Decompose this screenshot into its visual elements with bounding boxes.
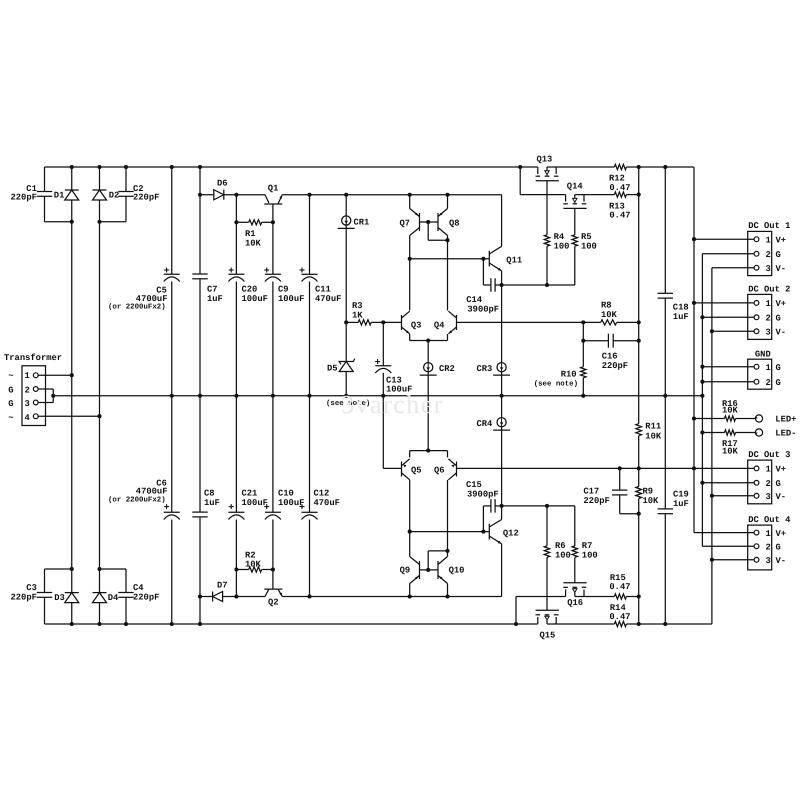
svg-text:Q16: Q16 (567, 598, 583, 608)
svg-text:(see note): (see note) (534, 380, 578, 389)
svg-text:R6: R6 (555, 541, 566, 551)
svg-text:Q5: Q5 (411, 465, 422, 475)
svg-text:3: 3 (766, 556, 771, 566)
svg-text:G: G (776, 479, 781, 489)
svg-text:V+: V+ (776, 529, 787, 539)
svg-text:10K: 10K (722, 406, 739, 416)
svg-text:C8: C8 (204, 489, 215, 499)
svg-text:D1: D1 (54, 190, 65, 200)
svg-text:R8: R8 (601, 301, 612, 311)
svg-text:Q14: Q14 (567, 182, 584, 192)
svg-text:D6: D6 (217, 179, 228, 189)
svg-text:Q13: Q13 (537, 155, 553, 165)
svg-text:C20: C20 (242, 285, 258, 295)
svg-text:Q6: Q6 (434, 465, 445, 475)
svg-text:4700uF: 4700uF (136, 487, 168, 497)
svg-text:DC Out 1: DC Out 1 (748, 221, 790, 231)
svg-text:Q9: Q9 (400, 566, 411, 576)
svg-text:2: 2 (766, 378, 771, 388)
svg-text:C4: C4 (133, 583, 144, 593)
svg-text:G: G (776, 542, 781, 552)
svg-text:G: G (8, 385, 13, 395)
svg-text:Q12: Q12 (503, 529, 519, 539)
svg-text:R11: R11 (645, 422, 661, 432)
svg-text:C11: C11 (315, 285, 331, 295)
svg-text:3: 3 (25, 399, 30, 409)
svg-text:3varcher: 3varcher (341, 390, 444, 419)
svg-text:CR4: CR4 (477, 419, 494, 429)
svg-text:D2: D2 (109, 190, 120, 200)
svg-text:DC Out 4: DC Out 4 (748, 515, 791, 525)
svg-text:10K: 10K (722, 446, 739, 456)
svg-text:Q4: Q4 (434, 321, 445, 331)
svg-text:Q1: Q1 (268, 184, 279, 194)
svg-text:(or 2200uFx2): (or 2200uFx2) (108, 496, 166, 505)
svg-text:10K: 10K (645, 431, 662, 441)
svg-text:1: 1 (25, 371, 30, 381)
svg-text:100: 100 (555, 551, 571, 561)
svg-text:~: ~ (8, 371, 13, 381)
svg-text:V-: V- (776, 264, 787, 274)
svg-text:Q3: Q3 (411, 321, 422, 331)
svg-text:1uF: 1uF (673, 499, 689, 509)
svg-text:100uF: 100uF (278, 498, 304, 508)
svg-text:1: 1 (766, 363, 771, 373)
svg-text:C21: C21 (242, 489, 258, 499)
svg-text:C7: C7 (207, 285, 218, 295)
svg-text:C14: C14 (466, 295, 483, 305)
svg-text:CR2: CR2 (439, 364, 455, 374)
svg-text:1: 1 (766, 529, 771, 539)
svg-text:2: 2 (766, 542, 771, 552)
svg-text:C19: C19 (673, 490, 689, 500)
svg-text:V+: V+ (776, 235, 787, 245)
svg-text:V-: V- (776, 556, 787, 566)
svg-text:470uF: 470uF (315, 294, 341, 304)
svg-text:0.47: 0.47 (609, 582, 630, 592)
svg-text:10K: 10K (601, 310, 618, 320)
svg-text:CR1: CR1 (354, 218, 370, 228)
svg-text:220pF: 220pF (11, 593, 37, 603)
svg-text:Q11: Q11 (506, 256, 522, 266)
svg-text:0.47: 0.47 (609, 183, 630, 193)
svg-text:DC Out 2: DC Out 2 (748, 285, 790, 295)
svg-text:0.47: 0.47 (609, 211, 630, 221)
svg-text:1uF: 1uF (673, 312, 689, 322)
svg-text:G: G (776, 314, 781, 324)
svg-text:C10: C10 (278, 489, 294, 499)
svg-text:Q2: Q2 (268, 598, 279, 608)
svg-text:220pF: 220pF (583, 496, 609, 506)
svg-text:2: 2 (766, 314, 771, 324)
svg-text:R9: R9 (643, 487, 654, 497)
svg-text:V+: V+ (776, 465, 787, 475)
svg-text:D7: D7 (217, 581, 228, 591)
svg-text:3900pF: 3900pF (467, 305, 499, 315)
svg-text:C9: C9 (278, 285, 289, 295)
svg-text:1K: 1K (352, 311, 363, 321)
svg-text:R7: R7 (582, 541, 593, 551)
svg-text:Q15: Q15 (540, 631, 556, 641)
svg-text:3: 3 (766, 328, 771, 338)
svg-text:220pF: 220pF (11, 193, 37, 203)
svg-text:Q7: Q7 (400, 219, 411, 229)
svg-text:D3: D3 (54, 593, 65, 603)
svg-text:1: 1 (766, 235, 771, 245)
svg-text:4: 4 (25, 413, 31, 423)
svg-text:0.47: 0.47 (609, 612, 630, 622)
svg-text:Transformer: Transformer (4, 353, 62, 363)
svg-text:3: 3 (766, 492, 771, 502)
svg-text:10K: 10K (245, 239, 262, 249)
svg-text:220pF: 220pF (602, 361, 628, 371)
svg-text:R10: R10 (561, 369, 577, 379)
svg-text:R1: R1 (245, 229, 256, 239)
svg-text:~: ~ (8, 413, 13, 423)
svg-text:G: G (8, 399, 13, 409)
svg-text:C16: C16 (602, 352, 618, 362)
svg-text:C15: C15 (466, 480, 482, 490)
svg-text:220pF: 220pF (133, 193, 159, 203)
svg-text:D5: D5 (327, 364, 338, 374)
svg-text:100uF: 100uF (242, 498, 268, 508)
svg-text:4700uF: 4700uF (136, 294, 168, 304)
svg-text:C18: C18 (673, 303, 689, 313)
svg-text:V+: V+ (776, 299, 787, 309)
svg-text:220pF: 220pF (133, 593, 159, 603)
svg-text:100: 100 (582, 551, 598, 561)
svg-text:G: G (776, 250, 781, 260)
svg-text:C12: C12 (314, 489, 330, 499)
svg-text:R4: R4 (554, 232, 565, 242)
svg-text:R5: R5 (581, 232, 592, 242)
svg-text:100: 100 (581, 242, 597, 252)
svg-text:D4: D4 (108, 593, 119, 603)
svg-text:1uF: 1uF (207, 294, 223, 304)
svg-text:2: 2 (766, 479, 771, 489)
svg-text:1: 1 (766, 465, 771, 475)
svg-text:1uF: 1uF (204, 498, 220, 508)
svg-text:10K: 10K (245, 560, 262, 570)
svg-text:10K: 10K (643, 496, 660, 506)
svg-text:3: 3 (766, 264, 771, 274)
svg-text:2: 2 (766, 250, 771, 260)
svg-text:LED+: LED+ (775, 415, 796, 425)
svg-text:2: 2 (25, 385, 30, 395)
svg-text:G: G (776, 363, 781, 373)
svg-text:Q10: Q10 (449, 566, 465, 576)
svg-text:100uF: 100uF (278, 294, 304, 304)
svg-text:CR3: CR3 (477, 364, 493, 374)
svg-text:V-: V- (776, 492, 787, 502)
svg-text:470uF: 470uF (314, 498, 340, 508)
svg-text:R3: R3 (352, 301, 363, 311)
svg-text:(or 2200uFx2): (or 2200uFx2) (108, 303, 166, 312)
svg-text:DC Out 3: DC Out 3 (748, 450, 790, 460)
svg-text:100uF: 100uF (242, 294, 268, 304)
svg-text:G: G (776, 378, 781, 388)
svg-text:100: 100 (554, 242, 570, 252)
svg-text:3900pF: 3900pF (467, 490, 499, 500)
svg-text:C17: C17 (583, 487, 599, 497)
svg-text:C3: C3 (26, 583, 37, 593)
svg-text:LED-: LED- (775, 429, 796, 439)
svg-text:1: 1 (766, 299, 771, 309)
svg-text:Q8: Q8 (449, 219, 460, 229)
svg-text:GND: GND (755, 350, 771, 360)
svg-text:V-: V- (776, 328, 787, 338)
